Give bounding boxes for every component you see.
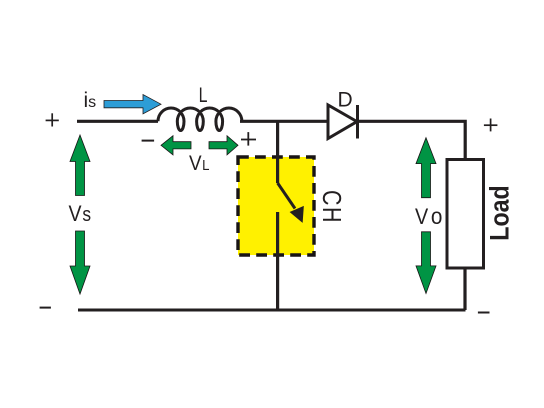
annotation: green down arrow Vs: [70, 231, 90, 294]
annotation: blue current arrow is: [104, 95, 161, 114]
wire: inductor to diode: [240, 120, 328, 123]
plus sign at output top: [484, 119, 498, 132]
wire: switch branch from top rail: [276, 120, 279, 183]
wire: diode to top-right corner: [359, 121, 465, 159]
switch CH blade: [278, 183, 295, 209]
wire: switch lower contact to bottom rail: [276, 212, 279, 310]
svg-text:VL: VL: [189, 152, 210, 175]
plus sign at source top: [46, 113, 59, 126]
svg-text:CH: CH: [317, 190, 345, 224]
inductor L: [158, 108, 242, 131]
annotation: green down arrow Vo: [416, 232, 436, 294]
diode D: [328, 105, 358, 139]
annotation: green up arrow Vs: [70, 135, 90, 196]
svg-text:Load: Load: [485, 185, 515, 240]
minus sign left of VL: [142, 140, 155, 142]
load resistor rectangle: [447, 160, 484, 269]
yellow dashed box around chopper switch: [238, 157, 314, 255]
svg-text:Vs: Vs: [69, 202, 92, 227]
wire: top-left segment (source + to inductor): [77, 120, 158, 123]
annotation: green right arrow (VL): [209, 136, 238, 155]
wire: load bottom to bottom rail: [463, 268, 466, 310]
switch CH arrowhead: [291, 207, 303, 221]
minus sign at source bottom: [40, 307, 51, 309]
annotation: green left arrow (VL): [161, 136, 191, 155]
svg-text:D: D: [338, 88, 353, 111]
annotation: green up arrow Vo: [416, 138, 436, 198]
plus sign right of VL: [241, 132, 256, 146]
svg-text:L: L: [199, 84, 208, 108]
wire: bottom rail: [78, 309, 466, 312]
minus sign at output bottom: [478, 312, 490, 314]
